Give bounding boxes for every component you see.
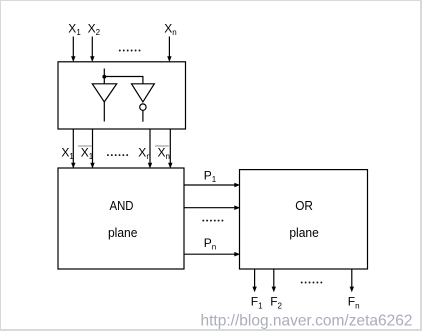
buffer U1 (non-inverting)	[92, 84, 116, 102]
input buffer box	[58, 62, 186, 129]
dots between AND plane input labels	[107, 154, 128, 156]
svg-text:http://blog.naver.com/zeta6262: http://blog.naver.com/zeta6262	[201, 313, 413, 330]
label Xn complement (overline)	[155, 146, 170, 162]
dots between P wires	[202, 220, 223, 222]
wire: buffer output	[103, 102, 105, 122]
wire: buffer input stub	[103, 69, 105, 84]
wire: X1 complement line into AND plane	[90, 129, 94, 168]
wire: Fn output arrow	[350, 269, 354, 292]
junction dot	[102, 75, 106, 79]
inverter U2	[132, 84, 155, 102]
wire: Xn complement line into AND plane	[168, 129, 172, 168]
wire: X1 input arrow	[71, 37, 75, 63]
wire: Xn input arrow	[167, 37, 171, 63]
OR plane box	[240, 170, 368, 269]
wire: branch to inverter	[104, 77, 143, 84]
dots between output labels	[301, 282, 323, 284]
wire: X2 input arrow	[90, 37, 94, 63]
svg-text:plane: plane	[289, 225, 319, 240]
wire: P2 arrow	[184, 205, 240, 210]
wire: F1 output arrow	[252, 269, 256, 292]
wire: P1 arrow	[184, 183, 240, 188]
svg-text:AND: AND	[110, 198, 134, 213]
wire: X1 true line into AND plane	[71, 129, 75, 168]
wire: Pn arrow	[184, 252, 240, 257]
dots between input labels	[119, 50, 141, 52]
inverter bubble	[140, 104, 146, 110]
wire: Xn true line into AND plane	[148, 129, 152, 168]
svg-text:plane: plane	[108, 225, 138, 240]
label X1 complement (overline)	[78, 146, 94, 162]
svg-text:OR: OR	[295, 198, 313, 213]
wire: inverter output	[142, 110, 144, 121]
AND plane box	[58, 168, 184, 269]
wire: F2 output arrow	[272, 269, 276, 292]
